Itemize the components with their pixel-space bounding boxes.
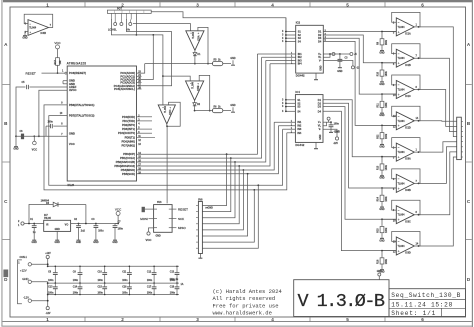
ground divider 4 [381,140,383,142]
svg-text:1A: 1A [181,283,184,286]
power flag +12V top [46,255,49,258]
wire bus5 [137,122,275,170]
svg-text:PD1(TXD): PD1(TXD) [122,119,135,123]
svg-text:+: + [398,218,400,222]
svg-text:GND: GND [379,178,384,180]
svg-text:PB0(ICP): PB0(ICP) [123,152,135,156]
svg-text:TL064: TL064 [164,105,167,112]
wire +input IC6A [382,156,396,158]
wire bus7 (xtal wrap) up to IC4 IN3 [258,129,282,185]
op-amp IC6C feedback wire [392,200,420,215]
ground IC4 cap [330,130,332,132]
svg-text:GND: GND [156,235,161,237]
op-amp IC6C [396,206,414,224]
svg-text:GND: GND [69,132,75,136]
power flag -12V above version box [378,273,381,276]
wire drop1 [202,154,226,205]
svg-text:100n: 100n [48,121,54,123]
svg-text:IC1C: IC1C [405,95,411,98]
svg-text:−: − [398,208,400,212]
svg-text:GND: GND [337,71,342,73]
svg-text:−: − [398,52,400,56]
IC4 VL wire [323,122,327,126]
diode D2 [194,100,196,102]
svg-text:PB4(MISO): PB4(MISO) [121,168,135,172]
svg-text:V-: V- [319,60,322,63]
svg-text:C18: C18 [170,286,175,288]
svg-text:GND: GND [379,240,384,242]
resistor R17 reset pullup [57,51,59,57]
wire drop7 [202,190,254,242]
resistor R3 divider [381,94,383,100]
svg-text:PD6(AIN0): PD6(AIN0) [122,139,136,143]
svg-text:IN3: IN3 [297,128,302,131]
wire +input IC6C [382,218,396,220]
svg-text:IC6D: IC6D [405,252,411,255]
power flag +5v IC2 [332,53,335,56]
svg-text:V-: V- [319,128,322,131]
IC7 78L05 regulator [44,220,71,231]
svg-text:IC4: IC4 [295,90,300,94]
node out1 [418,26,420,28]
wire reset to pin1 [42,72,65,74]
svg-text:TL064: TL064 [29,27,37,30]
wire pot vcc feed [151,12,286,32]
svg-text:IC5B: IC5B [198,85,200,91]
wires IC2 IN pins [257,53,295,55]
power VCC ISP [149,228,154,232]
op-amp IC1C [396,81,414,99]
svg-text:−: − [398,240,400,244]
svg-text:+: + [398,62,400,66]
op-amp IC1D feedback wire [392,106,420,121]
svg-text:100n: 100n [98,292,104,294]
power VCC avcc [33,136,35,141]
capacitor C21 IC4 [330,122,332,125]
IC4 V+ wire [323,121,331,123]
wire IC2 D3 [323,38,396,94]
svg-text:+: + [398,187,400,191]
svg-text:−: − [398,83,400,87]
node out7 [418,214,420,216]
svg-text:GND: GND [230,58,235,60]
svg-text:PB7(XTAL2/TOSC2): PB7(XTAL2/TOSC2) [69,114,95,118]
frame row ticks left [3,84,11,86]
IC2 V- wire [323,61,353,66]
wire IC2 D4 [323,41,396,125]
capacitor C14 [79,283,81,287]
svg-text:SCK: SCK [178,217,184,221]
window chrome top bar [3,0,472,2]
svg-text:VI: VI [46,224,49,227]
svg-text:SV6: SV6 [157,202,162,204]
svg-text:PB1(OC1A): PB1(OC1A) [120,156,135,160]
svg-text:4: 4 [271,317,274,322]
svg-text:100n: 100n [334,124,340,126]
svg-text:+: + [398,156,400,160]
wire bus3 [137,61,266,163]
svg-text:100n: 100n [147,280,153,282]
svg-text:GND: GND [230,105,235,107]
wire pot pin6 stub [135,13,137,35]
connector CON-4 header [198,202,202,254]
svg-text:3: 3 [196,317,199,322]
op-amp IC1A [396,18,414,36]
svg-text:PD2(INT0): PD2(INT0) [122,123,135,127]
wire bus2 [137,57,262,158]
svg-text:IC2: IC2 [296,21,301,25]
svg-text:100n: 100n [170,292,176,294]
node sig2 [194,106,196,111]
svg-text:RESET: RESET [26,71,36,75]
svg-text:180k: 180k [386,39,388,45]
op-amp IC6B feedback wire [392,169,420,184]
power VCC flag at reset pullup [56,45,60,49]
jumper MOSI pad [142,207,145,212]
svg-text:VCC: VCC [115,208,122,212]
frame row ticks right [466,84,472,86]
svg-text:1: 1 [46,2,49,7]
wire bus1 [137,54,258,154]
IC2 VL wire [323,54,330,57]
power flag LCD pins [114,20,116,23]
capacitor C5 aref [26,85,28,89]
ground divider 7 [381,234,383,236]
svg-text:180k: 180k [386,164,388,170]
op-amp IC5C plus loop wire [167,102,180,126]
svg-text:DG442: DG442 [296,74,305,78]
power VCC regulator out [116,211,120,215]
wire +input IC1B [382,62,396,64]
svg-text:100n: 100n [122,280,128,282]
ground row2 [232,107,234,112]
IC IC4 DG442 body [295,95,323,143]
resistor R5 divider [381,157,383,163]
svg-text:180k: 180k [386,227,388,233]
svg-text:TL064: TL064 [192,31,195,38]
ground IC2 [315,73,317,77]
svg-text:−: − [190,81,192,85]
op-amp IC3B feedback wire [24,14,53,27]
ground CON-4 [199,254,201,257]
svg-text:2u2: 2u2 [81,231,86,233]
capacitor C15 [104,283,106,287]
wire +input IC1C [382,93,396,95]
wires IC2 S pins common [285,18,287,42]
svg-text:GND: GND [32,241,38,244]
svg-text:VO: VO [65,224,69,227]
node out8 [418,245,420,247]
svg-text:GND: GND [379,272,384,274]
svg-text:R12: R12 [378,134,380,139]
svg-text:TL064: TL064 [192,81,195,88]
svg-text:C11: C11 [122,272,127,274]
IC2 V+ wire [323,53,350,55]
ground avcc [15,136,17,144]
node sig1 [194,56,196,64]
frame column ticks bottom [84,317,86,322]
wire gnd pins [63,80,67,82]
svg-text:-12V: -12V [23,296,29,300]
svg-text:IN4: IN4 [297,132,302,135]
svg-text:POT: POT [117,7,122,10]
svg-text:PD7(AIN1): PD7(AIN1) [122,144,136,148]
svg-text:100n: 100n [122,292,128,294]
svg-text:TL064: TL064 [398,26,406,29]
svg-text:DG442: DG442 [295,143,304,147]
window chrome left edge [1,0,2,326]
power flag +5 IC4 [327,117,330,120]
pin +12V [28,263,31,266]
svg-text:100n: 100n [48,280,54,282]
svg-text:All rights reserved: All rights reserved [213,295,276,302]
title block version box [294,280,389,317]
wire IC4 D4 [323,111,396,250]
capacitor C3 [95,224,97,226]
svg-text:+: + [169,105,171,109]
svg-text:−: − [398,21,400,25]
svg-text:TL064: TL064 [398,182,406,185]
wire regulator output [71,223,119,225]
capacitor C8 [54,266,56,272]
svg-text:C13: C13 [48,286,53,288]
svg-text:PD3(INT1): PD3(INT1) [122,127,135,131]
svg-text:(c) Harald Antes 2024: (c) Harald Antes 2024 [213,288,283,295]
op-amp IC1B feedback wire [392,44,420,59]
wire pot wiper2 line [111,19,162,76]
svg-text:VCC: VCC [69,142,75,146]
svg-text:+: + [398,124,400,128]
wire adc PC0 from row1 [137,64,145,74]
svg-text:PD4(XCK/T0): PD4(XCK/T0) [118,131,135,135]
svg-text:4: 4 [271,2,274,7]
wire row2 [195,110,213,112]
wire +input IC6D [382,250,396,252]
svg-text:IC5C: IC5C [170,109,172,115]
svg-text:GND: GND [320,134,322,139]
wire IC4 D2 [323,103,396,188]
capacitor C17 [153,283,155,287]
svg-text:R14: R14 [377,196,380,201]
svg-text:TL064: TL064 [398,120,406,123]
op-amp IC6D [396,237,414,255]
svg-text:GND: GND [112,241,118,244]
svg-text:www.haraldswerk.de: www.haraldswerk.de [213,310,272,317]
svg-text:6: 6 [421,2,424,7]
op-amp IC1A feedback wire [392,12,420,27]
node out5 [418,151,420,153]
svg-text:180k: 180k [386,71,388,77]
op-amp IC3B triangle [28,20,49,36]
ground C2 [78,238,80,240]
wire AVCC [39,90,67,136]
node out3 [166,124,168,126]
svg-text:PC6(/RESET): PC6(/RESET) [69,71,86,75]
capacitor C13 [54,283,56,287]
capacitor C2 [78,224,80,226]
svg-text:−: − [162,105,164,109]
ground regulator [56,231,58,238]
svg-text:180k: 180k [386,258,388,264]
svg-text:IC1A: IC1A [405,33,411,36]
svg-text:PC5(ADC5/SCL): PC5(ADC5/SCL) [114,87,135,91]
wire pot wiper3 line to PC4 [127,19,172,86]
svg-text:15.11.24 15:28: 15.11.24 15:28 [391,301,452,308]
svg-text:PB5(SCK): PB5(SCK) [122,172,135,176]
svg-text:TL064: TL064 [398,245,406,248]
svg-text:GND: GND [55,229,60,231]
svg-text:IC1B: IC1B [405,64,411,67]
wire +12 rail [32,263,48,265]
svg-text:+12V: +12V [45,253,51,255]
wire pot wiper1 to T1 minus [133,24,191,31]
svg-text:-12V: -12V [46,313,51,315]
svg-text:C12: C12 [147,272,152,274]
connector POT-1 header [107,10,151,13]
resistor R8 divider [381,251,383,257]
svg-text:Free for private use: Free for private use [213,302,279,309]
svg-text:LCD-BL: LCD-BL [108,30,117,32]
wire drop3 [202,162,235,218]
wire bus6 [137,126,279,174]
svg-text:R11: R11 [378,103,380,108]
op-amp IC5B minus feed wire [163,76,190,81]
op-amp IC5A (buffer) [186,31,204,51]
svg-text:PD5(T1): PD5(T1) [125,135,135,139]
svg-text:VCC: VCC [54,41,61,45]
svg-text:R10: R10 [378,71,380,76]
wire drop8 [202,185,258,248]
ground divider 8 [381,265,383,267]
node RESET [57,72,59,74]
wire +input IC1A [382,31,396,33]
svg-text:MOSI: MOSI [140,217,148,221]
capacitor C18 [176,283,178,287]
capacitor C16 [128,283,130,287]
svg-text:+: + [398,30,400,34]
svg-text:GND: GND [320,65,322,70]
svg-text:+: + [29,30,31,34]
op-amp IC5C minus feed wire [162,76,164,105]
wire +input IC1D [382,124,396,126]
svg-text:GND: GND [76,241,82,244]
svg-text:+: + [198,31,200,35]
node out2 [418,57,420,59]
wire row1 [145,63,213,65]
ground IC2 cap [339,66,341,68]
capacitor C11 [128,266,130,272]
IC IC2 DG442 body [296,25,324,73]
capacitor C6 avcc [21,134,24,140]
wires opamp outputs to CON-2 [419,27,457,137]
ground C7 [114,238,116,240]
op-amp IC5C (buffer) [158,105,175,124]
svg-text:-12V: -12V [334,132,339,134]
wire drop6 [202,174,247,236]
svg-text:100u: 100u [98,231,104,233]
node out3 [418,89,420,91]
ground row1 [232,60,234,65]
svg-text:3: 3 [196,2,199,7]
svg-text:10k: 10k [59,60,62,65]
svg-text:C17: C17 [147,286,152,288]
wire bus4 [137,64,271,166]
svg-text:GND: GND [22,36,28,39]
svg-text:R15: R15 [378,228,380,233]
svg-text:IC6A: IC6A [405,158,411,161]
op-amp IC5A plus loop wire [198,27,208,63]
power flag -12 IC2 [351,66,354,69]
ground divider 1 [381,46,383,48]
svg-text:180k: 180k [386,133,388,139]
sheet corner mark [3,270,8,278]
wire drop4 [202,166,239,224]
connector POT pin stubs [110,13,112,19]
connector input jack [21,222,24,225]
svg-text:100n,1u: 100n,1u [170,279,179,281]
svg-text:−: − [398,146,400,150]
svg-text:−: − [190,31,192,35]
svg-text:−: − [29,22,31,26]
IC4 V- wire [323,129,337,137]
ground divider 3 [381,109,383,111]
resistor R7 divider [381,219,383,225]
node out6 [418,183,420,185]
svg-text:R16: R16 [378,259,380,264]
svg-text:78L05: 78L05 [44,217,51,220]
schematic sheet outer bottom border [3,321,472,323]
resistor R6 row2 [212,109,222,113]
wire -12 rail [32,300,48,302]
capacitor C10 [104,266,106,272]
svg-text:TL064: TL064 [398,214,406,217]
svg-text:VCC: VCC [32,148,38,152]
svg-text:IN4: IN4 [298,63,303,66]
wire AREF decoupling [30,86,68,88]
wires IC4 S pins common [285,41,287,111]
ground divider 6 [381,203,383,205]
svg-text:C15: C15 [98,286,103,288]
capacitor C4 at gnd pin [53,125,67,127]
diode D3 1N4004 bypass [29,205,53,224]
IC U1 ATMEGA328 body [67,66,136,181]
resistor R5 row1 [212,62,222,66]
ground divider 5 [381,171,383,173]
power flag -12V bottom [46,307,49,310]
svg-text:R17: R17 [54,59,57,64]
wire IC2 D1 [323,31,396,33]
svg-text:RESET: RESET [178,207,188,211]
svg-text:6: 6 [421,317,424,322]
wire IC2 D2 [323,35,396,63]
wires IC4 IN pins [274,121,295,123]
svg-text:AVCC: AVCC [69,88,77,92]
svg-text:100n: 100n [73,280,79,282]
svg-text:C14: C14 [73,285,78,288]
window chrome right edge [472,0,473,327]
svg-text:GND: GND [379,84,384,86]
svg-text:GND: GND [379,53,384,55]
svg-text:GND: GND [13,147,19,150]
svg-text:IC3B: IC3B [41,32,47,35]
pin -12V [28,299,31,302]
resistor R4 divider [381,125,383,131]
svg-text:+: + [197,81,199,85]
svg-text:TL064: TL064 [398,151,406,154]
wire drop5 [202,170,243,230]
op-amp IC6D feedback wire [392,232,420,247]
svg-text:100n: 100n [73,292,79,294]
